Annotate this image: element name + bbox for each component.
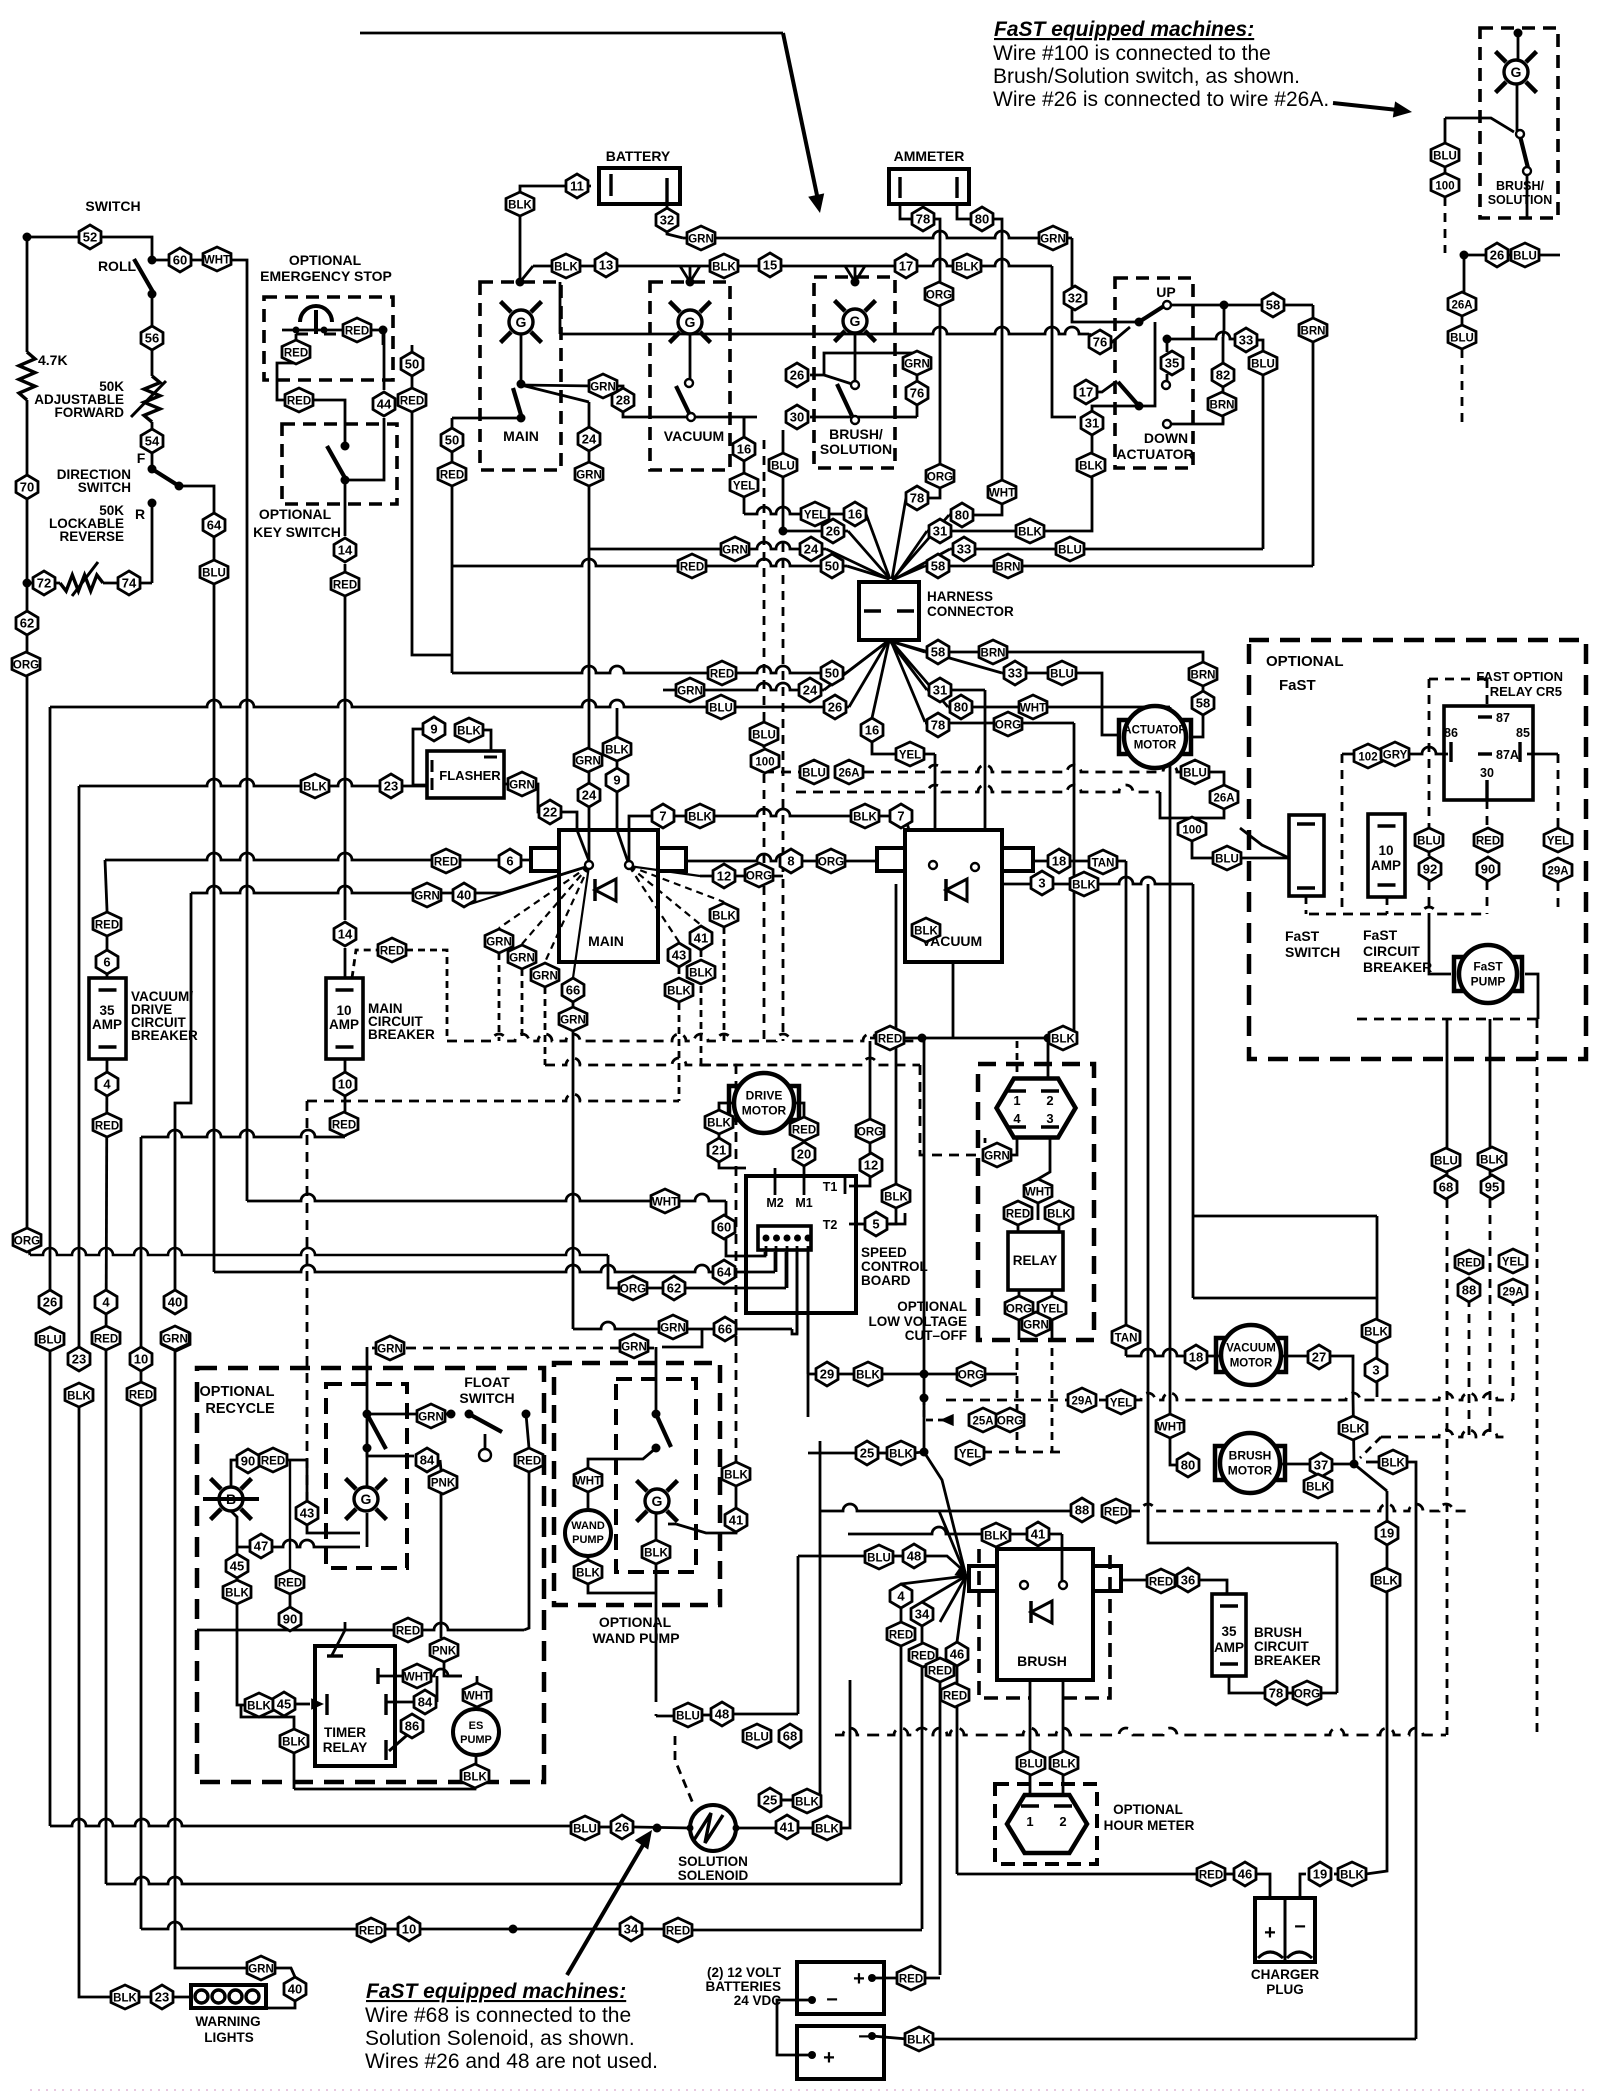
cr5 pin30 bbox=[1485, 780, 1488, 800]
wire down contact bbox=[1167, 415, 1223, 424]
svg-text:BREAKER: BREAKER bbox=[368, 1027, 435, 1042]
svg-text:BRUSH: BRUSH bbox=[1017, 1653, 1067, 1669]
svg-text:M1: M1 bbox=[795, 1196, 812, 1210]
dot main c2 bbox=[517, 414, 526, 423]
wire battery red2 bbox=[923, 1977, 940, 1980]
svg-text:31: 31 bbox=[1085, 416, 1099, 431]
hex label WHT at 217,259 bbox=[203, 247, 231, 271]
motor G main bbox=[501, 302, 542, 343]
svg-text:CUT–OFF: CUT–OFF bbox=[905, 1328, 967, 1343]
wire 45 BLK wire bbox=[271, 1704, 272, 1707]
brush diode bbox=[1031, 1601, 1052, 1623]
svg-text:WHT: WHT bbox=[652, 1197, 678, 1209]
wire 29 org bbox=[924, 1373, 1017, 1376]
wire 28 low bbox=[623, 412, 686, 417]
svg-text:OPTIONAL: OPTIONAL bbox=[1266, 653, 1344, 670]
svg-text:36: 36 bbox=[1181, 1573, 1195, 1588]
hex label 78 at 923,219 bbox=[912, 207, 934, 231]
wire 46 hexline bbox=[1223, 1873, 1233, 1876]
wire pin5 bbox=[807, 1246, 810, 1417]
svg-text:86: 86 bbox=[1444, 726, 1458, 740]
dashed yel col bbox=[1051, 1348, 1054, 1452]
wire 14/RED col bbox=[344, 564, 347, 920]
hex label BRN at 1008,566 bbox=[994, 554, 1022, 578]
svg-text:30: 30 bbox=[790, 410, 804, 425]
hex label 18 at 1196,1357 bbox=[1185, 1345, 1207, 1369]
wire 80 low bbox=[891, 641, 948, 707]
wire PNK col2 bbox=[444, 1662, 462, 1676]
wire 62 to pin bbox=[622, 1287, 786, 1290]
svg-text:31: 31 bbox=[933, 683, 947, 698]
svg-text:RED: RED bbox=[899, 1974, 923, 1986]
hex label BLU at 879,1557 bbox=[865, 1545, 893, 1569]
fast circuit breaker bbox=[1368, 814, 1405, 897]
svg-text:BOARD: BOARD bbox=[861, 1273, 911, 1288]
hex label 13 at 606,265 bbox=[595, 253, 617, 277]
hex label BLK at 520,204 bbox=[506, 192, 534, 216]
wire 34 bus bbox=[105, 1350, 108, 1884]
svg-text:WAND: WAND bbox=[571, 1520, 605, 1532]
pot 50K forward bbox=[144, 376, 160, 422]
wire 45 col low bbox=[237, 1604, 247, 1705]
hex label GRN at 735,549 bbox=[721, 537, 749, 561]
hex label RED at 1488,840 bbox=[1474, 828, 1502, 852]
svg-text:BLK: BLK bbox=[712, 911, 736, 923]
svg-text:−: − bbox=[826, 1989, 838, 2011]
wire 23 warning bbox=[79, 1407, 113, 1997]
dashed 43 col2 bbox=[306, 1101, 309, 1500]
wire 10 breaker bottom bbox=[344, 1059, 347, 1137]
wire brush box drop2 bbox=[1062, 1680, 1065, 1735]
hex label 5 at 876,1224 bbox=[865, 1212, 887, 1236]
svg-text:26: 26 bbox=[43, 1295, 57, 1310]
svg-text:BLU: BLU bbox=[802, 768, 826, 780]
wire 34 low bbox=[921, 1667, 924, 1929]
wire 33 corner bbox=[1257, 340, 1263, 352]
svg-text:4: 4 bbox=[897, 1589, 905, 1604]
hex label BLK at 679,990 bbox=[665, 978, 693, 1002]
motor G recycle bbox=[346, 1479, 387, 1520]
hex label BLK at 967,266 bbox=[953, 254, 981, 278]
svg-text:CONTROL: CONTROL bbox=[861, 1259, 928, 1274]
hex label BLK at 1091,465 bbox=[1077, 453, 1105, 477]
svg-text:68: 68 bbox=[783, 1729, 797, 1744]
wire 100 link bbox=[1445, 118, 1514, 132]
wire lvc blk bbox=[1058, 1225, 1061, 1232]
key switch blade bbox=[327, 446, 345, 478]
wire bs blade bbox=[837, 384, 852, 416]
wire RED corner bbox=[284, 1460, 307, 1502]
wire fast diag bbox=[1240, 828, 1289, 858]
wire brush coil right bbox=[1121, 1579, 1149, 1582]
svg-text:3: 3 bbox=[1038, 876, 1045, 891]
wire estop left drop bbox=[277, 334, 296, 400]
svg-text:6: 6 bbox=[103, 955, 110, 970]
wire drive left bbox=[719, 1103, 734, 1110]
wire 3 h1298 bbox=[1193, 1297, 1376, 1300]
svg-text:BLK: BLK bbox=[225, 1588, 249, 1600]
svg-text:24: 24 bbox=[582, 788, 597, 803]
svg-text:35: 35 bbox=[1221, 1624, 1237, 1639]
main ring1 fan bbox=[499, 866, 589, 928]
svg-text:BLK: BLK bbox=[1340, 1870, 1364, 1882]
svg-text:11: 11 bbox=[570, 179, 584, 194]
hex label BLK at 701,972 bbox=[687, 960, 715, 984]
wire y1038 bbox=[870, 1037, 1052, 1040]
hex label 40 at 175,1302 bbox=[164, 1290, 186, 1314]
wire 78/ORG col bbox=[934, 219, 940, 476]
svg-text:G: G bbox=[361, 1491, 372, 1507]
hex label 36 at 1188,1580 bbox=[1177, 1568, 1199, 1592]
svg-text:32: 32 bbox=[660, 213, 674, 228]
dashed col 764 bbox=[763, 440, 766, 722]
svg-text:BLU: BLU bbox=[745, 1732, 769, 1744]
svg-text:46: 46 bbox=[1238, 1867, 1252, 1882]
hex label 41 at 1038,1534 bbox=[1027, 1522, 1049, 1546]
hex label 24 at 811,549 bbox=[800, 537, 822, 561]
wire 62/ORG rail bbox=[27, 583, 30, 1255]
wire down right bbox=[1139, 322, 1155, 406]
wire 80 into brush motor bbox=[1170, 1438, 1176, 1465]
wire bs2 out bbox=[1526, 175, 1529, 218]
svg-text:26A: 26A bbox=[1213, 793, 1234, 805]
wire 29 left bbox=[807, 1252, 810, 1374]
svg-text:15: 15 bbox=[763, 258, 777, 273]
ring bs out bbox=[851, 416, 859, 424]
svg-text:BLK: BLK bbox=[815, 1824, 839, 1836]
dashed 88 diag bbox=[1360, 1437, 1381, 1458]
hex label GRN at 427,895 bbox=[413, 883, 441, 907]
svg-text:BLU: BLU bbox=[1513, 251, 1537, 263]
hex label BLK at 1353,1428 bbox=[1339, 1416, 1367, 1440]
dashed yel col bbox=[1557, 754, 1560, 828]
svg-text:BRN: BRN bbox=[981, 648, 1006, 660]
hex label 48 at 914,1556 bbox=[903, 1544, 925, 1568]
wire 48 tee bbox=[655, 1714, 658, 1716]
svg-text:TAN: TAN bbox=[1092, 858, 1115, 870]
svg-text:GRN: GRN bbox=[509, 780, 535, 792]
svg-text:54: 54 bbox=[145, 434, 160, 449]
svg-text:34: 34 bbox=[915, 1607, 930, 1622]
wire fast col 1490 bbox=[1489, 1019, 1492, 1147]
wire 19 to charger bbox=[1300, 1874, 1306, 1898]
svg-text:ACTUATOR: ACTUATOR bbox=[1123, 725, 1187, 737]
svg-text:2: 2 bbox=[1059, 1814, 1066, 1829]
svg-text:BLK: BLK bbox=[907, 2035, 931, 2047]
lvc hexagon bbox=[997, 1079, 1076, 1138]
hex label 50 at 832,673 bbox=[821, 661, 843, 685]
wire main G stem bbox=[520, 334, 523, 381]
svg-text:BLU: BLU bbox=[1417, 836, 1441, 848]
svg-text:23: 23 bbox=[155, 1990, 169, 2005]
svg-text:90: 90 bbox=[241, 1454, 255, 1469]
hex label 43 at 679,955 bbox=[668, 943, 690, 967]
wire RED 1630 wire bbox=[197, 1629, 396, 1632]
svg-text:BRN: BRN bbox=[1301, 326, 1326, 338]
speed pin connector bbox=[758, 1226, 811, 1250]
svg-text:BLK: BLK bbox=[1480, 1155, 1504, 1167]
svg-text:MOTOR: MOTOR bbox=[742, 1104, 787, 1118]
dashed col 783 low bbox=[782, 543, 785, 1041]
wire BLU/100 col 764 bbox=[763, 722, 766, 748]
svg-text:RED: RED bbox=[889, 1630, 913, 1642]
svg-text:RED: RED bbox=[943, 1691, 967, 1703]
wire 12 gap bbox=[869, 1143, 872, 1153]
svg-text:29A: 29A bbox=[1502, 1287, 1523, 1299]
wire estop pushbutton bbox=[282, 329, 383, 332]
dashed relay87 up bbox=[1486, 679, 1489, 705]
wire 7 into vacuum bbox=[905, 816, 909, 830]
hex label RED at 529,1460 bbox=[515, 1448, 543, 1472]
hex label 35 at 1172,363 bbox=[1161, 351, 1183, 375]
svg-text:5: 5 bbox=[872, 1217, 879, 1232]
svg-text:F: F bbox=[137, 450, 146, 466]
fast pump bbox=[1454, 945, 1522, 1003]
svg-text:RED: RED bbox=[1006, 1209, 1030, 1221]
svg-text:BLK: BLK bbox=[884, 1192, 908, 1204]
svg-text:17: 17 bbox=[1079, 385, 1093, 400]
motor G brush/solution bbox=[835, 301, 876, 342]
hex label BLU at 721,707 bbox=[707, 695, 735, 719]
dashed bus 1041 bbox=[447, 1034, 916, 1041]
wire 31 col lower bbox=[1089, 476, 1092, 531]
svg-text:GRN: GRN bbox=[532, 971, 558, 983]
svg-text:BLU: BLU bbox=[573, 1824, 597, 1836]
motor G wand bbox=[637, 1481, 678, 1522]
dashed 95 col bbox=[1489, 1199, 1492, 1437]
hex label 26 at 622,1827 bbox=[611, 1815, 633, 1839]
hex label BLU at 757,1736 bbox=[743, 1724, 771, 1748]
svg-text:RED: RED bbox=[440, 470, 464, 482]
dot wand c2 bbox=[652, 1444, 661, 1453]
svg-text:37: 37 bbox=[1314, 1458, 1328, 1473]
svg-text:18: 18 bbox=[1189, 1350, 1203, 1365]
wire pin2 bbox=[775, 1246, 778, 1272]
svg-text:19: 19 bbox=[1380, 1526, 1394, 1541]
hex label 74 at 129,583 bbox=[118, 571, 140, 595]
hex label WHT at 1002,492 bbox=[988, 480, 1016, 504]
hex label WHT at 1038,1191 bbox=[1024, 1179, 1052, 1203]
svg-text:64: 64 bbox=[207, 518, 222, 533]
svg-text:18: 18 bbox=[1052, 854, 1066, 869]
hex label ORG at 831,861 bbox=[817, 849, 845, 873]
svg-text:BRN: BRN bbox=[1191, 670, 1216, 682]
svg-text:12: 12 bbox=[864, 1158, 878, 1173]
svg-text:WHT: WHT bbox=[575, 1476, 601, 1488]
hex label 4 at 107,1084 bbox=[96, 1072, 118, 1096]
svg-text:BLU: BLU bbox=[752, 730, 776, 742]
svg-text:31: 31 bbox=[933, 524, 947, 539]
hex label 29A at 1082,1400 bbox=[1068, 1388, 1096, 1412]
hex label BLK at 736,1474 bbox=[722, 1462, 750, 1486]
svg-text:BRN: BRN bbox=[1210, 400, 1235, 412]
svg-text:WHT: WHT bbox=[989, 488, 1015, 500]
wire 9 col bbox=[616, 708, 619, 737]
wire 37 out bbox=[1279, 1463, 1309, 1466]
svg-text:13: 13 bbox=[599, 258, 613, 273]
svg-text:RED: RED bbox=[680, 562, 704, 574]
dashed 68 col bbox=[1446, 1199, 1449, 1735]
optional emergency stop box bbox=[264, 297, 393, 380]
svg-text:YEL: YEL bbox=[804, 510, 826, 522]
hex label 16 at 855,514 bbox=[844, 502, 866, 526]
svg-text:80: 80 bbox=[954, 700, 968, 715]
svg-text:WAND PUMP: WAND PUMP bbox=[592, 1630, 679, 1646]
hex label 12 at 724,876 bbox=[713, 864, 735, 888]
svg-text:46: 46 bbox=[950, 1647, 964, 1662]
svg-text:24: 24 bbox=[804, 542, 819, 557]
svg-text:21: 21 bbox=[712, 1143, 726, 1158]
svg-text:BLU: BLU bbox=[1183, 768, 1207, 780]
svg-text:85: 85 bbox=[1516, 726, 1530, 740]
wire hour pin1 bbox=[1029, 1775, 1032, 1806]
wire yel16 corner bbox=[743, 417, 746, 514]
svg-text:(2) 12 VOLT: (2) 12 VOLT bbox=[707, 1965, 782, 1980]
wire rail below 4.7K bbox=[26, 400, 29, 583]
hex label 7 at 901,816 bbox=[890, 804, 912, 828]
svg-text:ORG: ORG bbox=[958, 1370, 984, 1382]
svg-text:35: 35 bbox=[99, 1003, 115, 1018]
wire 41 gap bbox=[735, 1486, 738, 1508]
brush motor bbox=[1215, 1433, 1285, 1493]
wire org right bbox=[1319, 1692, 1337, 1695]
hex label BLK at 807,1801 bbox=[793, 1789, 821, 1813]
svg-text:Brush/Solution switch, as show: Brush/Solution switch, as shown. bbox=[993, 65, 1300, 88]
svg-text:RED: RED bbox=[345, 326, 369, 338]
svg-text:62: 62 bbox=[667, 1281, 681, 1296]
hex label BLK at 1492,1159 bbox=[1478, 1147, 1506, 1171]
hex label 40 at 464,895 bbox=[453, 883, 475, 907]
svg-text:T1: T1 bbox=[823, 1180, 838, 1194]
hex label BLU at 585,1828 bbox=[571, 1816, 599, 1840]
svg-text:25: 25 bbox=[860, 1446, 874, 1461]
svg-text:AMMETER: AMMETER bbox=[894, 148, 965, 164]
dot 26 x783 bbox=[779, 527, 788, 536]
wire 44 top bbox=[383, 330, 386, 390]
wire 78 to harness bbox=[906, 489, 940, 498]
svg-text:G: G bbox=[516, 314, 527, 330]
wire 58 right drop bbox=[1312, 305, 1315, 319]
wire vacuum 28 bbox=[616, 386, 623, 390]
hex label BLK at 901,1453 bbox=[887, 1441, 915, 1465]
hex label 60 at 180,260 bbox=[169, 248, 191, 272]
hex label WHT at 665,1201 bbox=[651, 1189, 679, 1213]
harness connector box bbox=[859, 582, 919, 640]
wire 41 corner bbox=[1061, 1534, 1064, 1581]
dashed 68 to solution bbox=[675, 1736, 694, 1806]
hex label BLK at 996,1535 bbox=[982, 1523, 1010, 1547]
pot forward arrow bbox=[131, 381, 166, 417]
hex label RED at 296,352 bbox=[282, 340, 310, 364]
svg-text:BLK: BLK bbox=[1051, 1034, 1075, 1046]
svg-text:BLU: BLU bbox=[202, 568, 226, 580]
svg-text:ES: ES bbox=[469, 1720, 484, 1732]
svg-text:GRN: GRN bbox=[414, 891, 440, 903]
wire 7 long bbox=[651, 809, 905, 816]
dashed 41 col bbox=[700, 950, 703, 1065]
wire 76 bus left drop bbox=[559, 282, 562, 334]
hex label 19 at 1320,1874 bbox=[1309, 1862, 1331, 1886]
hex label 34 at 631,1929 bbox=[620, 1917, 642, 1941]
svg-text:ORG: ORG bbox=[1006, 1304, 1032, 1316]
wire 14 keyswitch bbox=[344, 481, 347, 536]
svg-text:14: 14 bbox=[338, 927, 353, 942]
main switch box bbox=[480, 282, 561, 470]
wire 48 mid bbox=[891, 1555, 902, 1558]
hex label 41 at 701,938 bbox=[690, 926, 712, 950]
wire 33 low bbox=[890, 641, 1002, 673]
hex label RED at 1469,1262 bbox=[1455, 1250, 1483, 1274]
ring bs2 b bbox=[1523, 167, 1531, 175]
hex label RED at 357,330 bbox=[343, 318, 371, 342]
hex label BLK at 315,786 bbox=[301, 774, 329, 798]
dot down lever bbox=[1135, 402, 1144, 411]
hex label 100 at 765,761 bbox=[751, 749, 779, 773]
svg-text:AMP: AMP bbox=[1371, 858, 1401, 873]
wire y1038b bbox=[1052, 1037, 1074, 1040]
hex label BLK at 656,1552 bbox=[642, 1540, 670, 1564]
hex label 19 at 1387,1533 bbox=[1376, 1521, 1398, 1545]
vacuum switch box bbox=[650, 282, 730, 470]
svg-text:26: 26 bbox=[826, 524, 840, 539]
V into main bbox=[680, 266, 700, 282]
wire lvc pin2 bbox=[1047, 1038, 1050, 1080]
hex label 7 at 663,816 bbox=[652, 804, 674, 828]
direction switch blade F bbox=[152, 469, 179, 486]
wire estop right drop bbox=[382, 330, 385, 345]
hex label 76 at 1100,342 bbox=[1089, 330, 1111, 354]
svg-text:KEY SWITCH: KEY SWITCH bbox=[253, 524, 341, 540]
wire BLU col 783 bbox=[782, 430, 785, 531]
hex label 41 at 787,1827 bbox=[776, 1815, 798, 1839]
wire 8 ORG bbox=[686, 854, 877, 861]
svg-text:RED: RED bbox=[380, 946, 404, 958]
wire 82/BRN col bbox=[1222, 337, 1225, 364]
wire main top stub bbox=[689, 266, 692, 282]
wire lvc grn link bbox=[1009, 1136, 1017, 1155]
es pump circle bbox=[453, 1709, 499, 1755]
wire flasher GRN bbox=[504, 783, 510, 786]
wire 4 red low bbox=[900, 1646, 903, 1884]
svg-text:ROLL: ROLL bbox=[98, 258, 137, 274]
hex label 16 at 872,730 bbox=[861, 718, 883, 742]
wire float GRN dashed bbox=[372, 1347, 656, 1350]
svg-text:10: 10 bbox=[336, 1003, 351, 1018]
wire 76 upper col bbox=[1099, 330, 1102, 353]
svg-text:78: 78 bbox=[916, 212, 930, 227]
wire 66 drop bbox=[662, 1330, 702, 1347]
hex label TAN at 1126,1337 bbox=[1112, 1325, 1140, 1349]
timer relay box bbox=[315, 1646, 395, 1766]
hex label 23 at 391,786 bbox=[380, 774, 402, 798]
hex label BLK at 926,930 bbox=[912, 918, 940, 942]
svg-text:35: 35 bbox=[1165, 356, 1179, 371]
wire 5 hex right bbox=[889, 1213, 905, 1224]
dot brush junction bbox=[1350, 1460, 1359, 1469]
hex label 64 at 214,525 bbox=[203, 513, 225, 537]
wire 20 M1 bbox=[803, 1166, 806, 1195]
wire 48 hexline bbox=[700, 1714, 710, 1717]
wire wht wire bbox=[378, 1675, 405, 1678]
arrow 25A bbox=[940, 1414, 954, 1426]
wire keyswitch RED dashed bbox=[352, 950, 378, 978]
hex label BLK at 617,749 bbox=[603, 737, 631, 761]
dashed 41 jog bbox=[701, 1065, 736, 1462]
svg-text:VACUUM: VACUUM bbox=[1226, 1343, 1276, 1355]
bus riser bbox=[520, 266, 533, 282]
optional recycle box bbox=[197, 1368, 544, 1782]
wire timer tick L bbox=[325, 1694, 328, 1715]
